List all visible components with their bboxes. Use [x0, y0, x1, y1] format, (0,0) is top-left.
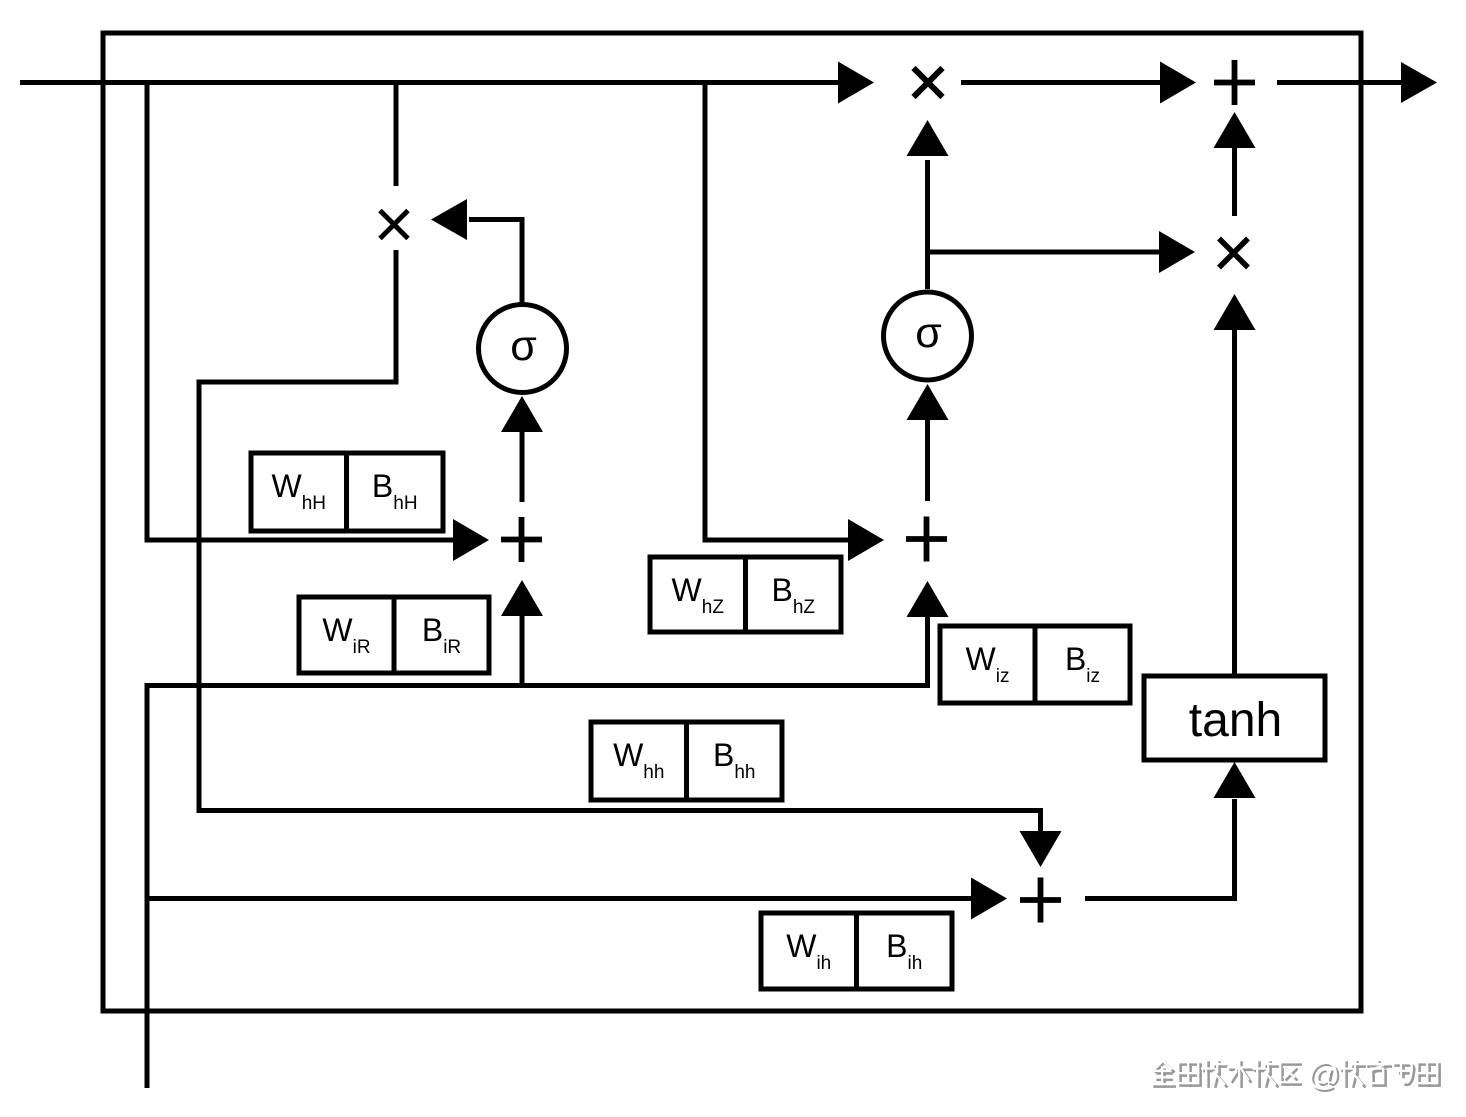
- svg-text:tanh: tanh: [1189, 694, 1282, 747]
- weight box Whh/Bhh: [591, 722, 782, 800]
- sigma circle S-z: [884, 292, 972, 380]
- wire: bus at y686 from left vertical to z corner: [147, 686, 930, 1089]
- multiplier X-z2: [1219, 239, 1248, 268]
- adder P1 on top line: [1214, 60, 1255, 105]
- svg-text:σ: σ: [510, 322, 537, 370]
- adder P-ih: [1020, 878, 1061, 923]
- arrowhead up into S-z: [907, 384, 949, 420]
- arrowhead into multiplier X1: [838, 62, 874, 104]
- arrowhead up into P-r: [501, 580, 543, 616]
- arrowhead up into X-z2: [1214, 294, 1256, 330]
- wire: X-z2 up shaft: [1232, 148, 1237, 216]
- weight box Wih/Bih: [761, 913, 952, 989]
- arrowhead up into tanh: [1214, 762, 1256, 798]
- outer cell box: [103, 33, 1361, 1011]
- svg-text:@: @: [1307, 1056, 1339, 1092]
- wire: bus at y898 from left vertical to P-ih: [147, 896, 971, 901]
- wire: S-z output up: [925, 160, 930, 289]
- wire: X-r output down-left-down to bottom route: [199, 250, 1041, 832]
- multiplier X-r: [380, 211, 408, 239]
- wire: shaft from bus686 corner up to P-z: [925, 617, 930, 688]
- wire: top h-line right segment: [1277, 80, 1401, 85]
- wire: drop B from top line: [394, 85, 399, 186]
- arrowhead into adder P-r: [453, 519, 489, 561]
- watermark text: [1155, 1063, 1440, 1087]
- arrowhead up into S-r: [501, 396, 543, 432]
- weight box WiR/BiR: [299, 597, 489, 673]
- arrowhead up into P1: [1214, 112, 1256, 148]
- arrowhead up into X1: [907, 120, 949, 156]
- multiplier X1 on top line: [914, 68, 943, 97]
- arrowhead into adder P1: [1160, 62, 1196, 104]
- wire: shaft from P-r up to S-r: [520, 432, 525, 502]
- adder P-r: [501, 517, 542, 562]
- arrowhead into adder P-z: [848, 519, 884, 561]
- wire: S-r output up and left: [469, 220, 522, 303]
- adder P-z: [906, 517, 947, 562]
- wire: drop C from top line: [705, 85, 848, 540]
- arrowhead left into X-r: [431, 199, 467, 240]
- arrowhead into P-ih: [971, 878, 1007, 920]
- weight box Wiz/Biz: [940, 626, 1130, 703]
- arrowhead output right: [1401, 62, 1437, 103]
- wire: drop A from top line: [147, 85, 453, 540]
- wire: branch right to X-z2: [928, 250, 1160, 255]
- svg-text:σ: σ: [915, 309, 942, 357]
- tanh box U-tanh: [1144, 676, 1325, 760]
- arrowhead into X-z2: [1159, 231, 1195, 273]
- arrowhead up into P-z: [907, 581, 949, 617]
- wire: main top h-line left segment: [20, 80, 840, 85]
- wire: P-ih output right then up to tanh: [1085, 799, 1235, 899]
- weight box WhH/BhH: [251, 453, 443, 531]
- sigma circle S-r: [479, 305, 567, 393]
- wire: top h-line mid segment: [961, 80, 1160, 85]
- arrowhead down into adder P-ih: [1020, 831, 1062, 867]
- wire: tanh output up to X-z2: [1232, 330, 1237, 676]
- wire: shaft from P-z up to S-z: [925, 420, 930, 501]
- wire: shaft from bus686 up to P-r: [520, 616, 525, 688]
- weight box WhZ/BhZ: [650, 557, 841, 632]
